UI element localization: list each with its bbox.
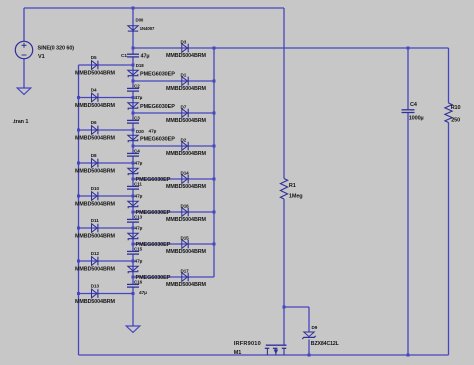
svg-text:D18: D18 xyxy=(136,63,144,68)
label C11 xyxy=(134,181,142,186)
svg-text:MMBD5004BRM: MMBD5004BRM xyxy=(166,118,207,124)
label R1 xyxy=(289,183,296,189)
label D16 value xyxy=(166,217,207,223)
label D9 xyxy=(312,325,318,330)
label D12 value xyxy=(75,266,116,272)
label C13 xyxy=(134,214,143,219)
svg-text:D10: D10 xyxy=(91,186,100,191)
svg-text:D9: D9 xyxy=(312,325,318,330)
label D3 value xyxy=(166,53,207,59)
label D12 xyxy=(91,251,100,256)
wire V1 line to gate upper xyxy=(283,8,285,179)
svg-text:MMBD5004BRM: MMBD5004BRM xyxy=(75,201,116,207)
resistor R1 xyxy=(280,179,287,200)
label D1 value xyxy=(166,86,207,92)
svg-text:MMBD5004BRM: MMBD5004BRM xyxy=(166,86,207,92)
label D16 xyxy=(181,203,190,208)
svg-text:D11: D11 xyxy=(91,218,99,223)
svg-text:D1: D1 xyxy=(181,72,187,77)
capacitor C4 xyxy=(127,153,139,156)
schottky diode D23 xyxy=(128,233,138,240)
label D00 xyxy=(136,18,144,23)
svg-text:MMBD5004BRM: MMBD5004BRM xyxy=(75,266,116,272)
label PMEG6030EP D21 xyxy=(136,177,171,183)
svg-text:D5: D5 xyxy=(91,55,97,60)
capacitor C4 output xyxy=(402,110,415,113)
svg-text:.tran 1: .tran 1 xyxy=(13,119,29,125)
label PMEG6030EP D20 xyxy=(140,137,175,143)
diode D16 xyxy=(182,208,188,217)
diode D13 xyxy=(92,289,98,298)
label D7 xyxy=(181,104,187,109)
wire row D5 xyxy=(79,64,134,66)
wire D9 cathode lead xyxy=(308,339,310,355)
wire output rail xyxy=(133,47,449,49)
label D5 value xyxy=(75,70,116,76)
svg-text:PMEG6030EP: PMEG6030EP xyxy=(140,104,175,110)
wire top rail xyxy=(24,7,284,9)
label PMEG6030EP D23 xyxy=(136,242,171,248)
label D9 value xyxy=(311,341,340,347)
label C16 value xyxy=(139,290,147,296)
schottky diode D19 xyxy=(128,103,138,110)
label C4 value xyxy=(135,161,143,167)
svg-text:PMEG6030EP: PMEG6030EP xyxy=(140,137,175,143)
label C13 value xyxy=(135,226,143,232)
label D20 and 47u xyxy=(136,129,157,135)
capacitor C15 xyxy=(127,251,139,254)
label D14 xyxy=(181,170,190,175)
label PMEG6030EP D18 xyxy=(140,72,175,78)
svg-text:47µ: 47µ xyxy=(139,290,147,296)
label R10 xyxy=(451,105,461,111)
svg-text:MMBD5004BRM: MMBD5004BRM xyxy=(166,53,207,59)
wire chain vertical xyxy=(132,8,134,326)
svg-text:47µ: 47µ xyxy=(135,95,143,101)
label 1N4007 xyxy=(140,26,155,31)
svg-text:47µ: 47µ xyxy=(135,194,143,200)
svg-text:MMBD5004BRM: MMBD5004BRM xyxy=(75,135,116,141)
wire row D7 xyxy=(133,112,214,114)
svg-text:D8: D8 xyxy=(91,153,97,158)
svg-text:MMBD5004BRM: MMBD5004BRM xyxy=(75,299,116,305)
label D17 xyxy=(181,268,190,273)
svg-text:1000µ: 1000µ xyxy=(409,116,424,122)
svg-text:PMEG6030EP: PMEG6030EP xyxy=(140,72,175,78)
svg-text:MMBD5004BRM: MMBD5004BRM xyxy=(75,233,116,239)
svg-text:PMEG6030EP: PMEG6030EP xyxy=(136,242,171,248)
capacitor C1 xyxy=(127,54,139,57)
ground V1 xyxy=(17,88,31,94)
svg-text:MMBD5004BRM: MMBD5004BRM xyxy=(166,217,207,223)
capacitor C2 xyxy=(127,88,139,91)
label C1 value xyxy=(141,53,150,59)
label D8 xyxy=(91,153,97,158)
diode D5 xyxy=(92,61,98,70)
label D10 value xyxy=(75,201,116,207)
label C3 xyxy=(134,115,140,120)
label PMEG6030EP D24 xyxy=(136,275,171,281)
label D5 xyxy=(91,55,97,60)
svg-text:47µ: 47µ xyxy=(141,53,150,59)
svg-text:C1: C1 xyxy=(121,53,127,59)
label C16 xyxy=(134,279,143,284)
schottky diode D20 xyxy=(128,135,138,142)
label D13 value xyxy=(75,299,116,305)
svg-text:BZX84C12L: BZX84C12L xyxy=(311,341,340,347)
wire row D1 xyxy=(133,80,214,82)
svg-text:V1: V1 xyxy=(38,54,45,60)
label C4 xyxy=(134,148,140,153)
wire bottom rail xyxy=(79,354,449,356)
node top of chain xyxy=(132,7,135,10)
svg-text:250: 250 xyxy=(451,117,460,123)
wire R10 upper lead xyxy=(448,48,450,103)
svg-text:D16: D16 xyxy=(181,203,190,208)
schottky diode D18 xyxy=(128,70,138,77)
svg-text:R10: R10 xyxy=(451,105,461,111)
svg-text:47µ: 47µ xyxy=(135,161,143,167)
wire right bus xyxy=(213,48,215,277)
svg-text:1Meg: 1Meg xyxy=(289,193,303,199)
diode D1 xyxy=(182,77,188,86)
svg-text:PMEG6030EP: PMEG6030EP xyxy=(136,210,171,216)
svg-text:MMBD5004BRM: MMBD5004BRM xyxy=(75,168,116,174)
label D6 xyxy=(91,120,97,125)
directive .tran xyxy=(13,119,29,125)
diode D14 xyxy=(182,175,188,184)
svg-text:47µ: 47µ xyxy=(135,259,143,265)
svg-text:D14: D14 xyxy=(181,170,190,175)
label D2 value xyxy=(166,151,207,157)
label D4 value xyxy=(75,103,116,109)
svg-text:D7: D7 xyxy=(181,104,187,109)
label C4 output xyxy=(410,102,418,108)
svg-text:D17: D17 xyxy=(181,268,190,273)
label D3 xyxy=(181,39,187,44)
label D11 value xyxy=(75,233,116,239)
svg-text:MMBD5004BRM: MMBD5004BRM xyxy=(166,282,207,288)
label D4 xyxy=(91,87,97,92)
svg-text:D00: D00 xyxy=(136,18,144,23)
label D14 value xyxy=(166,184,207,190)
diode D10 xyxy=(92,192,98,201)
svg-text:D15: D15 xyxy=(181,235,190,240)
label PMEG6030EP D22 xyxy=(136,210,171,216)
svg-text:SINE(0 320 60): SINE(0 320 60) xyxy=(38,46,75,52)
svg-text:1N4007: 1N4007 xyxy=(140,26,155,31)
wire row D14 xyxy=(133,178,214,180)
svg-text:D6: D6 xyxy=(91,120,97,125)
label M1 value IRFR9010 xyxy=(234,341,261,347)
label D13 xyxy=(91,283,100,288)
svg-text:MMBD5004BRM: MMBD5004BRM xyxy=(75,70,116,76)
diode D11 xyxy=(92,224,98,233)
svg-text:D2: D2 xyxy=(181,137,187,142)
label C2 xyxy=(134,83,140,88)
label V1 xyxy=(38,54,45,60)
schottky diode D22 xyxy=(128,201,138,208)
voltage source V1 xyxy=(15,41,32,58)
svg-text:R1: R1 xyxy=(289,183,296,189)
wire left bus xyxy=(78,65,80,355)
label D7 value xyxy=(166,118,207,124)
label C1 xyxy=(121,53,127,59)
diode D15 xyxy=(182,240,188,249)
diode D4 xyxy=(92,93,98,102)
svg-text:M1: M1 xyxy=(234,350,241,356)
label D8 value xyxy=(75,168,116,174)
wire R10 lower lead xyxy=(448,123,450,356)
label C4 output value xyxy=(409,116,424,122)
schottky diode D24 xyxy=(128,266,138,273)
capacitor C11 xyxy=(127,186,139,189)
wire row D4 xyxy=(79,97,134,99)
svg-text:MMBD5004BRM: MMBD5004BRM xyxy=(166,151,207,157)
label D1 xyxy=(181,72,187,77)
diode D00 xyxy=(128,26,138,31)
svg-text:D13: D13 xyxy=(91,283,100,288)
capacitor C13 xyxy=(127,219,139,222)
svg-text:C4: C4 xyxy=(134,148,140,153)
capacitor C16 xyxy=(127,284,139,287)
wire V1 top lead xyxy=(23,8,25,42)
label D6 value xyxy=(75,135,116,141)
svg-text:D3: D3 xyxy=(181,39,187,44)
svg-text:PMEG6030EP: PMEG6030EP xyxy=(136,275,171,281)
wire row D10 xyxy=(79,195,134,197)
diode D7 xyxy=(182,109,188,118)
label C2 value xyxy=(135,95,143,101)
svg-text:47µ: 47µ xyxy=(149,129,157,135)
svg-text:C2: C2 xyxy=(134,83,140,88)
wire row D2 xyxy=(133,145,214,147)
wire R1 to gate node xyxy=(283,199,285,307)
label C15 value xyxy=(135,259,143,265)
label D18 xyxy=(136,63,144,68)
svg-text:D20: D20 xyxy=(136,129,144,134)
label D17 value xyxy=(166,282,207,288)
svg-text:IRFR9010: IRFR9010 xyxy=(234,341,261,347)
capacitor C3 xyxy=(127,120,139,123)
label M1 xyxy=(234,350,241,356)
wire row D15 xyxy=(133,243,214,245)
label C11 value xyxy=(135,194,143,200)
svg-text:MMBD5004BRM: MMBD5004BRM xyxy=(166,184,207,190)
ground chain xyxy=(126,326,140,332)
wire row D12 xyxy=(79,260,134,262)
label D15 xyxy=(181,235,190,240)
label D2 xyxy=(181,137,187,142)
wire row D11 xyxy=(79,227,134,229)
diode D12 xyxy=(92,257,98,266)
wire gate node to M1 xyxy=(283,307,285,345)
label D15 value xyxy=(166,249,207,255)
label D11 xyxy=(91,218,99,223)
wire row D13 xyxy=(79,293,134,295)
label V1 value xyxy=(38,46,75,52)
diode D3 xyxy=(182,44,188,53)
wire row D17 xyxy=(133,276,214,278)
wire row D16 xyxy=(133,211,214,213)
mosfet M1 xyxy=(265,345,287,355)
svg-text:C4: C4 xyxy=(410,102,418,108)
wire D9 anode lead xyxy=(308,307,310,332)
diode D17 xyxy=(182,273,188,282)
wire row D6 xyxy=(79,129,134,131)
wire V1 bottom lead xyxy=(23,59,25,89)
wire C4 upper lead xyxy=(407,48,409,110)
label R1 value xyxy=(289,193,303,199)
label D10 xyxy=(91,186,100,191)
svg-text:47µ: 47µ xyxy=(135,226,143,232)
label PMEG6030EP D19 xyxy=(140,104,175,110)
wire gate node to D9 xyxy=(284,306,309,308)
diode D6 xyxy=(92,126,98,135)
diode D8 xyxy=(92,159,98,168)
zener diode D9 xyxy=(302,332,315,339)
diode D2 xyxy=(182,142,188,151)
schottky diode D21 xyxy=(128,168,138,175)
svg-text:D12: D12 xyxy=(91,251,100,256)
svg-text:PMEG6030EP: PMEG6030EP xyxy=(136,177,171,183)
svg-text:D4: D4 xyxy=(91,87,97,92)
svg-text:C3: C3 xyxy=(134,115,140,120)
label R10 value xyxy=(451,117,460,123)
svg-text:MMBD5004BRM: MMBD5004BRM xyxy=(166,249,207,255)
wire row D8 xyxy=(79,162,134,164)
label C15 xyxy=(134,246,143,251)
svg-text:MMBD5004BRM: MMBD5004BRM xyxy=(75,103,116,109)
wire C4 lower lead xyxy=(407,113,409,356)
resistor R10 xyxy=(445,103,452,123)
